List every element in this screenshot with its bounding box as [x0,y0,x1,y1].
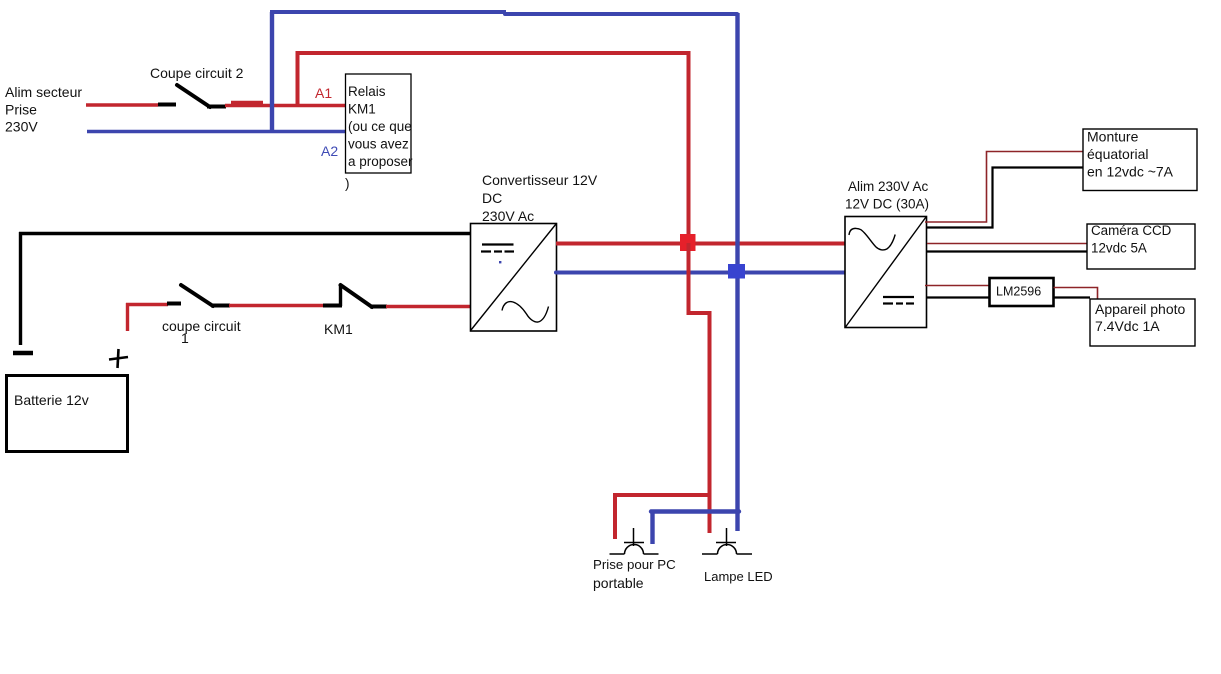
svg-text:Coupe circuit 2: Coupe circuit 2 [150,65,244,81]
svg-text:portable: portable [593,575,644,591]
svg-text:A2: A2 [321,143,338,159]
wire mains phase red to relay [225,104,346,107]
converter AC sine wave [502,302,549,322]
label Alim secteur Prise 230V [5,84,82,135]
svg-text:Appareil photo: Appareil photo [1095,301,1186,317]
svg-text:vous avez: vous avez [348,137,409,152]
svg-text:7.4Vdc 1A: 7.4Vdc 1A [1095,318,1160,334]
svg-text:(ou ce que: (ou ce que [348,119,412,134]
svg-text:A1: A1 [315,85,332,101]
svg-text:KM1: KM1 [348,102,376,117]
lamp symbol (lampe LED) [702,528,752,554]
svg-text:Relais: Relais [348,84,386,99]
switch KM1 blade [341,285,373,307]
switch SW1 contact left [167,302,181,306]
camera box [1087,224,1195,269]
svg-text:Batterie 12v: Batterie 12v [14,392,89,408]
wire blue top bus horizontal left part [270,10,506,14]
wire blue socket lead [650,511,654,544]
switch KM1 riser [339,285,342,306]
svg-text:KM1: KM1 [324,321,353,337]
PSU DC symbol solid line [883,296,914,298]
battery plus terminal [109,349,128,368]
svg-text:Monture: Monture [1087,129,1139,145]
wire blue right vertical down [735,13,739,531]
junction blue node [728,264,745,279]
wire red branch vertical to top bus [296,53,300,105]
appareil photo box [1090,299,1195,346]
switch SW1 contact right [211,304,230,308]
label Appareil photo [1095,301,1186,334]
wire red converter output [556,242,845,246]
PSU U2 box [845,217,927,328]
relay K1 box [346,74,412,173]
wire mains neutral blue [87,130,346,133]
switch KM1 contact right [370,305,387,309]
svg-text:Caméra CCD: Caméra CCD [1091,223,1172,238]
converter DC symbol solid line [482,243,514,245]
label Convertisseur 12V DC 230V Ac [482,172,598,224]
wire red socket lead [613,493,617,539]
wire blue branch to socket [651,509,739,513]
wire red to converter [386,305,470,308]
wire maroon to camera [927,243,1087,245]
converter U1 box [471,224,557,332]
wire blue branch vertical to top bus [270,12,274,132]
wire red vertical below junction [687,243,691,315]
svg-text:Prise pour PC: Prise pour PC [593,557,676,572]
wire battery positive red horizontal [126,303,168,306]
svg-text:a proposer: a proposer [348,154,413,169]
regulator LM2596 box [990,278,1054,306]
wire battery negative vertical [19,232,22,345]
wire mains phase red segment [86,103,158,106]
switch SW2 blade (coupe circuit 2) [177,85,210,107]
wire maroon out of LM2596 [1054,288,1098,300]
svg-text:LM2596: LM2596 [996,285,1041,299]
svg-text:DC: DC [482,190,502,206]
label Alim 230V Ac 12V DC (30A) [845,179,929,212]
wire black to appareil photo (behind LM2596) [927,296,1090,298]
svg-text:12V DC (30A): 12V DC (30A) [845,197,929,212]
wire maroon into LM2596 [925,285,989,287]
svg-text:230V: 230V [5,119,38,135]
svg-text:Lampe LED: Lampe LED [704,569,773,584]
svg-text:coupe circuit: coupe circuit [162,318,241,334]
svg-text:Convertisseur 12V: Convertisseur 12V [482,172,598,188]
svg-text:): ) [345,176,350,191]
wire red between switches [229,304,324,307]
switch SW1 blade (coupe circuit 1) [181,285,213,306]
label Monture equatorial [1087,129,1174,180]
converter blue dot [499,261,501,263]
wire blue top bus horizontal right part [505,12,737,16]
svg-text:Prise: Prise [5,102,37,118]
battery B1 box [7,376,128,452]
socket symbol (prise) [610,528,659,554]
svg-text:équatorial: équatorial [1087,146,1149,162]
wire red top bus horizontal [296,51,691,55]
wire maroon to monture horizontal from PSU [925,152,1083,223]
wire battery positive red vertical [126,303,129,331]
battery minus terminal [13,351,33,356]
wire black to camera [927,250,1087,252]
wire red bump [231,101,263,104]
wire red down to lamps [708,313,712,533]
wire red branch to socket [613,493,711,497]
svg-text:en 12vdc ~7A: en 12vdc ~7A [1087,164,1174,180]
converter DC symbol dashed line [481,250,514,252]
PSU DC symbol dashed line [883,302,914,304]
junction red node [680,234,696,251]
svg-text:Alim secteur: Alim secteur [5,84,82,100]
wire black to monture [927,168,1083,228]
converter U1 diagonal [471,224,556,330]
relay K1 label [348,84,413,169]
monture box [1083,129,1197,191]
wire switch contact black right [207,105,226,109]
switch KM1 contact left [323,304,342,308]
wire red right vertical down to junction [687,53,691,243]
svg-text:Alim 230V Ac: Alim 230V Ac [848,179,929,194]
wire switch contact black left [158,103,176,107]
svg-text:230V Ac: 230V Ac [482,208,534,224]
wire red jog horizontal [687,311,712,315]
label Camera CCD [1091,223,1172,256]
wire blue converter output [556,271,845,275]
wire battery negative black top [19,232,470,235]
svg-text:12vdc 5A: 12vdc 5A [1091,241,1147,256]
svg-text:1: 1 [181,330,189,346]
PSU U2 diagonal [846,217,927,327]
PSU AC sine wave [849,228,895,250]
